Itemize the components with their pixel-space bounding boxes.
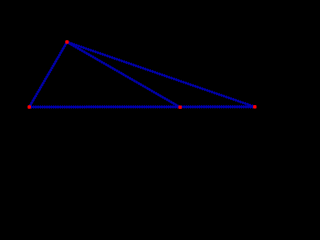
node B — [28, 105, 31, 108]
node A — [65, 40, 68, 43]
wire segment AB — [28, 40, 69, 108]
wire segment AM — [65, 40, 182, 109]
wire segment AC — [65, 40, 256, 108]
node M — [178, 106, 181, 109]
node C — [253, 105, 256, 108]
wire segment BC (base) — [27, 105, 256, 109]
